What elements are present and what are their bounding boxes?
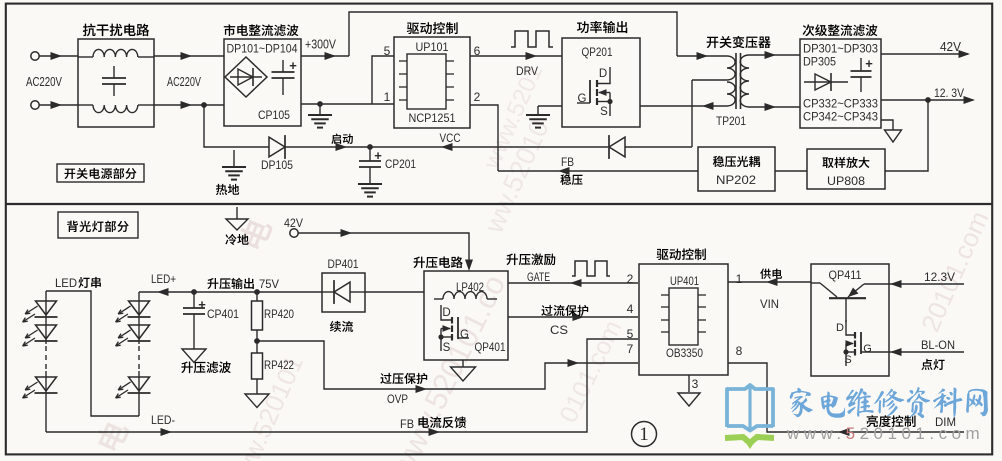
svg-text:8: 8 — [736, 344, 743, 358]
svg-text:FB: FB — [561, 155, 574, 169]
label pin 2 — [474, 90, 481, 104]
label CP401 — [207, 307, 239, 321]
label pin 2 UP401 — [627, 272, 634, 286]
block boost circuit box — [424, 271, 508, 360]
waveform GATE square wave — [572, 261, 610, 276]
label startup — [331, 134, 352, 144]
ground below UP401 — [678, 393, 700, 406]
terminal AC N input — [31, 101, 39, 109]
wire QP201 gate to ground — [538, 103, 590, 106]
svg-text:7: 7 — [627, 342, 634, 356]
label pin 4 UP401 — [627, 302, 634, 316]
wire AC N to filter — [39, 101, 78, 109]
logo book icon — [725, 385, 774, 449]
op-amp U2 inner IC UP401 — [661, 288, 706, 345]
svg-text:5: 5 — [627, 327, 634, 341]
inductor LP402 — [434, 292, 497, 299]
ground below CP401 — [182, 349, 206, 363]
label pin 7 UP401 — [627, 342, 634, 356]
svg-text:G: G — [460, 329, 469, 341]
label power output title — [577, 21, 627, 33]
label NCP1251 — [409, 111, 456, 125]
svg-text:+: + — [198, 297, 206, 312]
label +300V — [305, 38, 337, 52]
svg-text:CP401: CP401 — [207, 307, 239, 321]
resistor RP422 — [252, 341, 263, 394]
inductor line-filter top — [78, 49, 154, 57]
wire CS line — [508, 313, 638, 321]
label UP401 — [670, 274, 699, 288]
wire aux tap — [692, 79, 727, 81]
svg-text:AC220V: AC220V — [26, 75, 63, 89]
label backlight section box — [58, 212, 138, 238]
label drive control title 2 — [657, 248, 706, 260]
svg-text:CP332~CP333: CP332~CP333 — [803, 97, 878, 111]
block UP808 box — [807, 149, 885, 189]
wire NP202 to UP808 — [775, 170, 807, 172]
node junction AC-N — [201, 102, 207, 108]
label transformer title — [707, 36, 771, 48]
label DP105 — [261, 158, 293, 172]
label GATE — [527, 270, 550, 284]
label pin 5 — [384, 44, 391, 58]
svg-text:QP401: QP401 — [475, 340, 506, 354]
label QP401 — [475, 340, 506, 354]
label cold ground — [225, 234, 248, 245]
logo site name — [790, 387, 988, 418]
resistor RP420 — [252, 292, 263, 341]
label mains rectifier title — [224, 24, 299, 36]
label TP201 — [716, 114, 746, 128]
label RP420 — [264, 307, 294, 321]
node junction RP420-RP422 — [254, 338, 260, 344]
block secondary rectifier box — [800, 39, 881, 128]
label CP201 — [385, 157, 416, 171]
label boost circuit title — [413, 256, 462, 268]
label DP401 — [328, 257, 359, 271]
ground cold symbol — [226, 207, 248, 230]
block DP401 box — [322, 273, 365, 312]
label DP305 — [803, 55, 836, 69]
label pin 5 UP401 — [627, 327, 634, 341]
label CS — [550, 323, 568, 337]
label LED string — [55, 276, 101, 290]
wire OVP line — [257, 341, 638, 393]
label BL-ON — [921, 338, 955, 352]
label FB top — [561, 155, 574, 169]
svg-text:1: 1 — [736, 272, 743, 286]
diode secondary symbol — [804, 73, 848, 91]
wire UP808 to 12V — [885, 100, 928, 171]
svg-text:+: + — [865, 56, 873, 71]
label DP101-DP104 — [227, 42, 298, 56]
label regulate — [560, 174, 582, 185]
svg-text:D: D — [836, 322, 844, 334]
label hot ground — [216, 184, 239, 195]
diode DP105 — [269, 135, 285, 159]
svg-text:DP301~DP303: DP301~DP303 — [803, 42, 878, 56]
svg-text:D: D — [442, 307, 450, 319]
svg-text:NP202: NP202 — [716, 173, 756, 187]
wire BL-ON — [889, 348, 964, 356]
wire pin3 stub — [688, 375, 690, 392]
wire FB line — [498, 167, 698, 175]
node junction CP401 — [191, 289, 197, 295]
label AC220V mid — [167, 75, 201, 89]
wire +300V top rail — [349, 12, 677, 56]
label CP332-CP333 — [803, 97, 878, 111]
label DP301-DP303 — [803, 42, 878, 56]
svg-text:1: 1 — [639, 424, 649, 445]
ground secondary cold — [885, 130, 902, 142]
wire pin2 down — [470, 105, 498, 171]
svg-text:12. 3V: 12. 3V — [934, 86, 964, 100]
label circled number 1 — [632, 422, 657, 447]
wire 12.3V out — [881, 96, 975, 104]
block mains rectifier box — [224, 39, 301, 126]
ground below boost — [451, 360, 476, 381]
label OVP — [387, 392, 408, 406]
capacitor line-filter — [102, 66, 126, 96]
terminal AC L input — [31, 52, 39, 60]
svg-text:S: S — [600, 106, 608, 118]
wire 12.3V feed — [889, 280, 964, 288]
svg-text:4: 4 — [627, 302, 634, 316]
wire AC L to filter — [39, 52, 78, 60]
wire secondary top to rect — [749, 51, 800, 59]
label NP202 — [716, 173, 756, 187]
label QP411 — [829, 268, 862, 282]
wire QP411 gate out — [861, 351, 889, 353]
svg-text:www.520101.com: www.520101.com — [786, 424, 984, 443]
ground below CP201 — [358, 184, 382, 197]
wire LED series link — [46, 291, 139, 416]
wire DIM line — [728, 363, 964, 436]
capacitor CP201 — [359, 147, 382, 183]
svg-text:DRV: DRV — [516, 64, 538, 78]
svg-text:QP201: QP201 — [582, 45, 613, 59]
transformer TP201 core — [736, 53, 741, 109]
transformer TP201 aux winding — [727, 82, 735, 106]
terminal 42V feed — [290, 229, 298, 237]
capacitor secondary symbol — [851, 56, 874, 92]
label LED+ — [151, 272, 176, 286]
label OVP protect — [380, 373, 427, 384]
label secondary rectifier title — [803, 24, 878, 36]
capacitor CP401 — [183, 292, 206, 349]
wire LED- FB line — [46, 339, 638, 436]
node junction RP420 top — [254, 289, 260, 295]
diode DP401 — [322, 280, 365, 304]
ground QP201 gate — [526, 106, 550, 128]
svg-text:UP101: UP101 — [416, 40, 449, 54]
transistor QP411 bjt — [811, 283, 889, 322]
svg-text:42V: 42V — [940, 40, 962, 54]
svg-text:G: G — [863, 343, 872, 355]
wire DP401 to boost — [365, 291, 424, 293]
label OCP protect — [541, 305, 588, 316]
block QP201 box — [562, 38, 640, 127]
svg-text:2: 2 — [627, 272, 634, 286]
svg-text:CP105: CP105 — [258, 110, 290, 122]
svg-text:AC220V: AC220V — [167, 75, 201, 89]
svg-text:S: S — [844, 354, 851, 366]
svg-text:75V: 75V — [259, 277, 279, 291]
wire 42V out — [881, 50, 970, 58]
svg-text:CS: CS — [550, 323, 568, 337]
label boost output — [207, 277, 279, 291]
svg-text:3: 3 — [692, 377, 699, 391]
block QP411 box — [811, 264, 889, 376]
svg-text:CP201: CP201 — [385, 157, 416, 171]
label FB bottom — [400, 417, 414, 431]
svg-text:DP105: DP105 — [261, 158, 293, 172]
wire QP201 drain out — [640, 102, 727, 110]
svg-text:DP101~DP104: DP101~DP104 — [227, 42, 298, 56]
svg-text:+300V: +300V — [305, 38, 337, 52]
label DIM — [935, 415, 956, 429]
transformer TP201 secondary — [740, 55, 749, 107]
svg-text:LED: LED — [55, 276, 77, 290]
svg-text:LED+: LED+ — [151, 272, 176, 286]
label OB3350 — [666, 346, 703, 360]
svg-text:VCC: VCC — [440, 131, 461, 145]
ground below rectifier — [308, 104, 332, 128]
label freewheel — [330, 321, 353, 332]
wire secondary gnd stub — [881, 120, 893, 130]
node junction VCC-CP201 — [367, 144, 373, 150]
bridge rectifier DP101-DP104 — [225, 57, 267, 97]
svg-text:OB3350: OB3350 — [666, 346, 703, 360]
svg-text:D: D — [599, 68, 607, 80]
svg-text:42V: 42V — [284, 216, 303, 230]
wire +300V output — [301, 52, 349, 60]
svg-text:FB: FB — [400, 417, 414, 431]
label supply — [760, 269, 782, 279]
label LP402 — [456, 280, 484, 294]
wire after DP105 — [285, 143, 370, 151]
wire pin5 link — [372, 56, 394, 104]
label CP105 — [258, 110, 290, 122]
wire rail to transformer — [677, 52, 727, 60]
block UP401 box — [639, 264, 728, 375]
logo url — [786, 424, 984, 443]
label boost filter — [181, 361, 231, 373]
LED string column 2 — [116, 292, 151, 416]
svg-text:DP401: DP401 — [328, 257, 359, 271]
transformer TP201 primary — [727, 56, 735, 80]
svg-text:S: S — [443, 342, 451, 354]
wire boost output line — [139, 288, 322, 296]
label boost drive — [506, 253, 555, 265]
label NP202 title — [713, 156, 760, 167]
label VCC — [440, 131, 461, 145]
label 12.3V feed — [924, 270, 955, 284]
svg-text:DP305: DP305 — [803, 55, 836, 69]
label UP808 — [827, 174, 865, 188]
wire DRV pin6 to QP201 — [470, 52, 562, 60]
label brightness ctl — [867, 415, 916, 427]
svg-text:RP422: RP422 — [264, 358, 294, 372]
op-amp U1 inner IC UP101 — [399, 54, 454, 109]
svg-text:+: + — [289, 58, 297, 73]
wire GATE line — [508, 279, 638, 287]
svg-text:QP411: QP411 — [829, 268, 862, 282]
svg-text:VIN: VIN — [760, 297, 779, 311]
svg-text:TP201: TP201 — [716, 114, 746, 128]
wire 42V to boost — [298, 229, 473, 271]
ground hot — [222, 150, 246, 180]
svg-text:GATE: GATE — [527, 270, 550, 284]
wire filter to rectifier bottom — [154, 101, 224, 109]
label 42V feed — [284, 216, 303, 230]
label 42V out — [940, 40, 962, 54]
label pin 1 — [384, 90, 391, 104]
wire aux diode to winding — [625, 146, 692, 148]
svg-text:LED-: LED- — [151, 413, 175, 427]
svg-text:UP401: UP401 — [670, 274, 699, 288]
node junction 12.3V — [925, 97, 931, 103]
svg-text:BL-ON: BL-ON — [921, 338, 955, 352]
label RP422 — [264, 358, 294, 372]
label anti-interference title — [83, 24, 149, 37]
label current feedback — [418, 416, 466, 428]
ground below RP422 — [245, 394, 269, 408]
block anti-interference box — [78, 39, 154, 127]
inductor line-filter bottom — [78, 105, 154, 113]
label LED- — [151, 413, 175, 427]
label pin 8 UP401 — [736, 344, 743, 358]
transistor QP401 mosfet — [438, 305, 469, 354]
label CP342-CP343 — [803, 110, 878, 124]
label switch power section box — [57, 164, 144, 182]
wire aux down — [691, 80, 693, 147]
svg-text:UP808: UP808 — [827, 174, 865, 188]
label UP101 — [416, 40, 449, 54]
diode VCC aux — [609, 135, 625, 159]
wire VIN line — [728, 278, 811, 286]
svg-text:1: 1 — [384, 90, 391, 104]
node junction rect-low — [317, 101, 323, 107]
LED string column 1 — [23, 291, 58, 432]
label QP201 — [582, 45, 613, 59]
label DRV — [516, 64, 538, 78]
transistor QP201 mosfet — [578, 67, 613, 118]
label pin 3 UP401 — [692, 377, 699, 391]
label VIN — [760, 297, 779, 311]
svg-text:5: 5 — [384, 44, 391, 58]
block UP101 box — [394, 37, 470, 128]
transistor QP411 mosfet — [836, 320, 872, 366]
wire secondary bottom to rect — [749, 103, 800, 111]
waveform DRV square wave — [511, 31, 553, 47]
svg-text:RP420: RP420 — [264, 307, 294, 321]
svg-text:OVP: OVP — [387, 392, 408, 406]
label AC220V input — [26, 75, 63, 89]
wire filter to rectifier top — [154, 52, 224, 60]
section divider line — [5, 203, 993, 205]
capacitor CP105 — [272, 58, 298, 95]
label UP808 title — [822, 157, 869, 168]
wire rectifier low output — [301, 103, 394, 105]
label lamp-on — [921, 359, 944, 370]
svg-text:2: 2 — [474, 90, 481, 104]
svg-text:12.3V: 12.3V — [924, 270, 955, 284]
block NP202 optocoupler — [698, 147, 775, 191]
svg-text:NCP1251: NCP1251 — [409, 111, 456, 125]
svg-text:CP342~CP343: CP342~CP343 — [803, 110, 878, 124]
wire startup-vcc line — [204, 105, 269, 147]
label pin 1 UP401 — [736, 272, 743, 286]
label 12.3V out — [934, 86, 964, 100]
wire VCC line — [370, 143, 608, 151]
label drive control title 1 — [407, 22, 458, 34]
label pin 6 — [474, 44, 481, 58]
